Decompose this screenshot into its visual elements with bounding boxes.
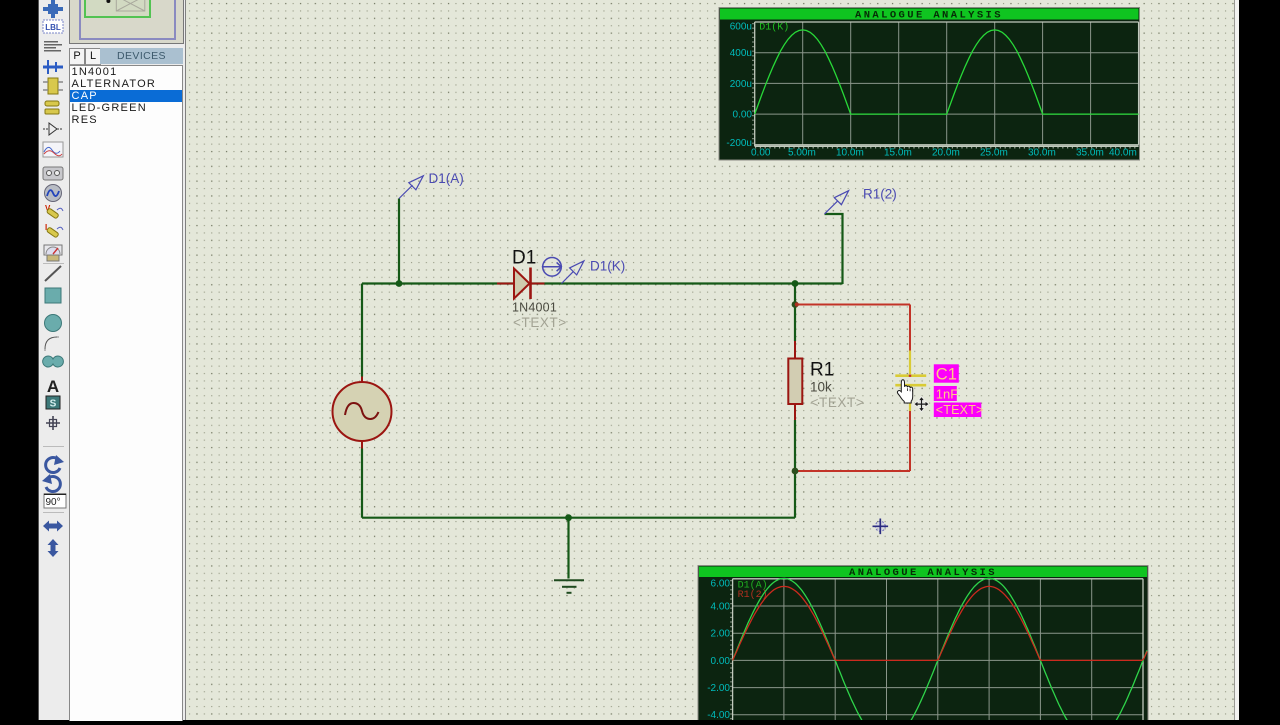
- bottom graph waveform R1(2) red rectified: [733, 586, 1147, 660]
- alternator source body: [333, 382, 392, 441]
- side panel: [68, 0, 185, 720]
- wire: C1 branch right lower (rubber red): [909, 411, 911, 471]
- diode D1 cathode pin: [531, 283, 545, 285]
- wire: C1 branch right upper (rubber red): [909, 305, 911, 351]
- svg-text:200u: 200u: [730, 79, 752, 90]
- sheet origin marker: [873, 519, 889, 535]
- resistor R1 pin bottom: [794, 404, 796, 420]
- top graph title bar: [720, 9, 1139, 20]
- rotate ccw icon: [46, 477, 60, 492]
- svg-text:C1: C1: [936, 365, 957, 383]
- junction node: C1 branch top tap: [792, 301, 799, 308]
- rotate cw icon: [46, 458, 60, 473]
- svg-text:<TEXT>: <TEXT>: [513, 315, 567, 330]
- subcircuit icon: [45, 101, 59, 114]
- svg-text:1N4001: 1N4001: [512, 301, 557, 315]
- svg-text:2.00: 2.00: [711, 629, 731, 640]
- svg-text:<TEXT>: <TEXT>: [811, 395, 865, 410]
- bottom graph title bar: [699, 567, 1147, 578]
- graph window: bottom analogue analysis: [698, 566, 1148, 725]
- move cursor 4-way arrow: [914, 397, 929, 412]
- svg-text:10k: 10k: [810, 380, 832, 395]
- junction node: main/R1 column: [792, 280, 799, 287]
- bottom graph waveform D1(A) green sine: [733, 578, 1147, 725]
- junction node: C1 branch bottom tap: [792, 468, 799, 475]
- generator icon: [45, 185, 62, 202]
- wire: R1 bottom column: [794, 420, 796, 518]
- bottom graph gridlines: [733, 579, 1143, 720]
- svg-text:0.00: 0.00: [733, 110, 753, 121]
- separator: [43, 446, 64, 447]
- 2d line icon: [45, 266, 61, 281]
- diode D1 body: [514, 268, 531, 300]
- text script icon: [44, 41, 62, 52]
- voltage probe icon: [45, 204, 63, 219]
- wire: alternator bottom riser: [361, 449, 363, 518]
- svg-text:D1(A): D1(A): [429, 171, 464, 186]
- overview window: [69, 0, 184, 44]
- bus icon: [43, 60, 63, 74]
- svg-text:<TEXT>: <TEXT>: [936, 403, 984, 417]
- svg-text:20.0m: 20.0m: [932, 147, 960, 158]
- separator: [43, 512, 64, 513]
- svg-text:A: A: [47, 377, 59, 396]
- svg-text:0.00: 0.00: [751, 147, 771, 158]
- svg-text:400u: 400u: [730, 48, 752, 59]
- wire label icon LBL: [43, 20, 63, 33]
- svg-text:-2.00: -2.00: [707, 683, 730, 694]
- svg-text:25.0m: 25.0m: [980, 147, 1008, 158]
- svg-text:LBL: LBL: [45, 23, 61, 32]
- resistor R1 body: [788, 359, 802, 405]
- junction node: ground tap: [565, 514, 572, 521]
- voltage probe D1(A): [399, 176, 423, 199]
- alternator bottom pin: [361, 441, 363, 449]
- device pin icon: [43, 123, 62, 135]
- diode D1 anode pin: [497, 283, 514, 285]
- svg-text:15.0m: 15.0m: [884, 147, 912, 158]
- wire: R1 top column: [794, 284, 796, 342]
- current probe icon: [45, 223, 63, 238]
- separator: [43, 263, 64, 264]
- svg-text:40.0m: 40.0m: [1109, 147, 1137, 158]
- svg-text:10.0m: 10.0m: [836, 147, 864, 158]
- wire: ground stem: [567, 518, 569, 579]
- 2d marker icon: [46, 416, 60, 430]
- wire: main top horizontal net: [362, 282, 843, 284]
- left toolbar: [38, 0, 69, 720]
- svg-text:5.00m: 5.00m: [788, 147, 816, 158]
- wire: D1(A) probe riser: [398, 199, 400, 284]
- junction node: main/D1(A): [396, 280, 403, 287]
- bottom graph window frame: [698, 566, 1148, 721]
- graph mode icon: [43, 142, 63, 157]
- value 1nF (tagged): [934, 386, 958, 401]
- svg-text:30.0m: 30.0m: [1028, 147, 1056, 158]
- svg-text:ANALOGUE ANALYSIS: ANALOGUE ANALYSIS: [849, 567, 997, 579]
- wire: R1(2) probe riser: [825, 214, 843, 284]
- svg-text:D1: D1: [512, 248, 536, 269]
- svg-text:90°: 90°: [46, 497, 61, 508]
- wire: alternator top riser: [361, 284, 363, 377]
- voltage probe R1(2): [825, 191, 849, 214]
- svg-text:S: S: [50, 399, 57, 410]
- top graph y-axis labels: [726, 21, 752, 149]
- bottom graph y-axis labels: [707, 579, 730, 721]
- svg-text:600u: 600u: [730, 21, 752, 32]
- voltage probe D1(K): [562, 261, 584, 284]
- label C1 (tagged): [934, 364, 959, 383]
- top graph waveform D1(K): [755, 30, 1139, 114]
- 2d arc icon: [45, 337, 60, 352]
- ground symbol: [554, 580, 584, 593]
- capacitor C1 bottom lead (selected yellow): [909, 387, 911, 412]
- wire: C1 branch top (rubber red): [795, 304, 910, 306]
- svg-text:4.00: 4.00: [711, 602, 731, 613]
- 2d box icon: [45, 288, 61, 303]
- capacitor C1 plates (selected yellow): [895, 375, 926, 386]
- svg-text:35.0m: 35.0m: [1076, 147, 1104, 158]
- current flow indicator on diode output: [542, 258, 562, 277]
- resistor R1 pin top: [794, 341, 796, 359]
- alternator top pin: [361, 377, 363, 383]
- wire: C1 branch bottom (rubber red): [795, 470, 910, 472]
- capacitor C1 top lead (selected yellow): [909, 351, 911, 375]
- top graph gridlines: [755, 22, 1139, 145]
- svg-text:6.00: 6.00: [711, 579, 731, 590]
- svg-text:1nF: 1nF: [936, 386, 958, 401]
- right window border strip: [1234, 0, 1239, 720]
- wire: bottom return horizontal: [362, 517, 795, 519]
- 2d symbol icon: [46, 396, 60, 410]
- instrument icon: [44, 245, 62, 261]
- svg-text:R1(2): R1(2): [863, 187, 897, 202]
- component icon: [43, 78, 63, 94]
- svg-text:D1(K): D1(K): [590, 259, 625, 274]
- 2d circle icon: [45, 315, 62, 332]
- top graph window frame: [719, 8, 1140, 161]
- graph window: top analogue analysis: [719, 8, 1140, 161]
- svg-text:-200u: -200u: [726, 138, 752, 149]
- flip horizontal icon: [43, 521, 63, 532]
- svg-text:R1: R1: [810, 360, 834, 381]
- mouse cursor hand: [897, 380, 912, 403]
- 2d path icon: [43, 356, 64, 367]
- svg-text:ANALOGUE ANALYSIS: ANALOGUE ANALYSIS: [855, 10, 1003, 22]
- tape recorder icon: [43, 167, 63, 180]
- placeholder TEXT of C1 (tagged): [934, 403, 984, 418]
- rotation angle box 90: [44, 494, 66, 509]
- svg-text:0.00: 0.00: [711, 656, 731, 667]
- svg-text:-4.00: -4.00: [707, 710, 730, 720]
- junction dot mode icon: [43, 0, 63, 18]
- flip vertical icon: [48, 539, 59, 557]
- svg-text:D1(K): D1(K): [759, 21, 789, 33]
- top graph x-axis labels: [751, 147, 1137, 158]
